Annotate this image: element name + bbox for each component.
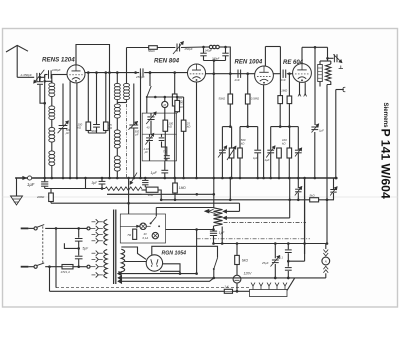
scan fold line xyxy=(3,196,398,198)
choke bottom tap xyxy=(221,227,224,245)
svg-text:50kΩ: 50kΩ xyxy=(148,49,156,53)
wire x134 vertical xyxy=(133,84,136,180)
resistor R11 xyxy=(277,148,282,179)
wire x63 vertical xyxy=(62,84,65,180)
wire C4 to y188 line xyxy=(44,187,46,189)
wire C8 to bandfilter xyxy=(181,46,204,49)
label 4V 0.1A xyxy=(143,232,149,240)
svg-text:7,6: 7,6 xyxy=(163,149,168,153)
wire R7 bottom xyxy=(279,104,281,127)
svg-text:100pF: 100pF xyxy=(52,68,61,72)
oscillator box xyxy=(142,113,176,161)
wire R14 bottom xyxy=(164,131,166,161)
wire secondary bottom drop xyxy=(326,82,331,245)
switch S4 xyxy=(213,258,218,270)
speaker chevrons top xyxy=(323,250,328,257)
wire S4 down xyxy=(213,269,215,278)
svg-text:REN 804: REN 804 xyxy=(154,58,180,65)
resistor R1 100kOhm xyxy=(78,122,91,131)
svg-text:250pF: 250pF xyxy=(135,75,145,79)
wire x288 to x304 link xyxy=(288,260,304,262)
mains lead lower xyxy=(21,266,34,268)
capacitor C6 5000pF xyxy=(91,125,100,133)
wire x49.5 drop xyxy=(49,267,51,292)
capacitor C28 xyxy=(75,239,83,256)
wire R1 bottom xyxy=(87,131,89,134)
wire R8 xyxy=(288,74,290,127)
terminal circle on bus xyxy=(23,176,32,180)
capacitor C5 500pF variable xyxy=(58,121,71,135)
wire y229.5 heater link xyxy=(166,228,215,231)
wire x314.8 vertical xyxy=(314,47,317,179)
wire y287.7 dashed xyxy=(56,287,250,289)
wire L2 column xyxy=(116,73,119,180)
wire cap center tap xyxy=(64,243,80,250)
svg-text:0,1A: 0,1A xyxy=(143,236,149,240)
capacitor C14 1uF xyxy=(265,146,276,180)
svg-text:2nF: 2nF xyxy=(280,78,286,82)
transformer core xyxy=(114,210,116,285)
capacitor C30 1uF xyxy=(151,170,169,179)
wire x239.5 corner xyxy=(239,203,241,211)
output transformer secondary xyxy=(326,64,331,82)
wire x105 drop xyxy=(105,71,108,122)
wire osc top y47.5 xyxy=(127,47,149,49)
svg-text:pF: pF xyxy=(134,132,138,136)
wire mains lower left xyxy=(45,265,62,268)
wire R3 to C8 xyxy=(157,47,175,49)
wire primary bottom stub xyxy=(319,82,321,87)
svg-text:5kΩ: 5kΩ xyxy=(310,194,316,198)
resistor R4 0.5MOhm grid leak xyxy=(172,94,183,106)
capacitor C4 1uF xyxy=(27,182,48,187)
wire C1 to junction xyxy=(40,75,44,78)
wire F2 to bar xyxy=(233,290,250,293)
wire V1 leg x77 xyxy=(76,83,79,180)
choke L4 tapped xyxy=(214,208,223,226)
resistor R15 7.5kOhm xyxy=(175,97,184,113)
mains lead upper xyxy=(21,227,34,229)
label 120V xyxy=(244,272,253,276)
wire y188.5 xyxy=(45,187,105,190)
selector pins xyxy=(251,283,287,290)
mechanical link vertical x126.6 xyxy=(126,104,128,178)
svg-text:RE 604: RE 604 xyxy=(283,60,304,66)
wire y207.5 xyxy=(156,207,214,209)
capacitor C33 antenna shunt xyxy=(37,76,46,104)
wire x45 vertical xyxy=(43,75,46,182)
svg-text:1µF: 1µF xyxy=(265,158,270,162)
label 240pF xyxy=(211,57,220,61)
svg-text:1MΩ: 1MΩ xyxy=(179,186,186,190)
capacitor C8 250pF variable xyxy=(173,42,193,55)
wire R6 xyxy=(247,74,249,127)
capacitor C23 3uF xyxy=(92,177,106,189)
resistor R10 xyxy=(238,148,243,179)
capacitor C19 40pF variable xyxy=(146,112,156,134)
switch S3 in box xyxy=(150,217,160,227)
bandfilter bottom link xyxy=(204,59,226,62)
choke tap arrow y217.9 xyxy=(223,216,290,219)
svg-text:120V: 120V xyxy=(244,272,253,276)
wire C3 to V2 xyxy=(144,71,187,74)
choke left arrow xyxy=(205,209,216,213)
svg-text:0,1: 0,1 xyxy=(279,255,283,259)
resistor R22 7Ohm xyxy=(127,229,137,239)
svg-text:140pF: 140pF xyxy=(205,49,213,53)
wire pot to R18b xyxy=(142,189,147,191)
wire anode line y73.7 xyxy=(206,72,255,75)
wire V4 top xyxy=(301,47,303,63)
mains voltage taps xyxy=(87,219,103,277)
potentiometer P1 xyxy=(105,173,142,195)
wire C2 to V1 grid xyxy=(45,74,68,76)
wire x196.6 drop xyxy=(195,230,198,275)
wire V3 cathode xyxy=(262,85,265,180)
barretter lamp xyxy=(233,265,241,293)
output transformer primary xyxy=(318,65,323,82)
svg-text:P 141 W/604: P 141 W/604 xyxy=(379,129,393,199)
wire switch to box xyxy=(146,97,148,113)
wire x96.5 drop xyxy=(95,71,98,124)
speaker circle xyxy=(322,257,330,265)
wire y194.3 xyxy=(107,193,214,196)
capacitor C21 xyxy=(159,134,165,140)
svg-text:Siemens: Siemens xyxy=(382,103,389,129)
wire anode to C17 xyxy=(328,57,334,59)
wire V1 anode top loop xyxy=(76,45,111,180)
svg-text:1,4: 1,4 xyxy=(224,285,229,289)
wire V5 anode xyxy=(152,246,218,257)
wire lampbox right xyxy=(166,229,197,231)
capacitor C2 100pF xyxy=(49,68,61,79)
wire R4 bottom xyxy=(173,106,176,179)
capacitor C32 2nF xyxy=(280,70,286,82)
resistor R12 xyxy=(287,148,292,179)
wire transformer top link xyxy=(320,58,331,64)
capacitor C18 xyxy=(330,178,337,200)
svg-text:pF: pF xyxy=(65,131,70,135)
tube V3 REN 1004 xyxy=(235,60,274,85)
bracket group3 y126.6 xyxy=(271,125,291,128)
wire y277.9 xyxy=(118,276,326,281)
wire speaker top xyxy=(325,244,327,250)
svg-text:1kΩ: 1kΩ xyxy=(148,193,154,197)
mechanical link dashed y238.8 xyxy=(197,238,310,240)
wire x289.7 corner xyxy=(288,178,291,218)
wire y97 line xyxy=(147,96,184,99)
wire x230.3 low xyxy=(229,177,232,201)
transformer primary winding xyxy=(104,220,107,279)
wire S3 top xyxy=(155,208,157,217)
wire y281.3 xyxy=(118,278,214,284)
capacitor C20 trimmer 2-16pF xyxy=(143,133,154,161)
wire w1 filament xyxy=(121,247,146,259)
wire y273.6 xyxy=(118,271,197,276)
resistor R18 1kOhm xyxy=(146,187,158,197)
capacitor C7 500pF variable xyxy=(128,121,139,136)
capacitor C27 xyxy=(279,244,292,280)
svg-text:RENS 1204: RENS 1204 xyxy=(42,57,75,64)
pilot lamp LP2 xyxy=(152,232,158,238)
wire x230.3 top xyxy=(229,74,231,94)
capacitor C12 xyxy=(218,146,227,180)
wire V2 cathode drop xyxy=(195,82,198,179)
bandfilter left leg xyxy=(200,46,209,61)
wire screen bracket y133 xyxy=(88,131,106,134)
wire R18 out xyxy=(158,190,163,201)
switch S1b xyxy=(34,263,44,268)
wire speaker bottom xyxy=(325,273,327,278)
capacitor C1 2-350pF variable xyxy=(20,70,45,83)
wire x85.5 stub xyxy=(84,177,87,189)
wire x140.5 vertical xyxy=(139,73,142,180)
resistor R2 25kOhm xyxy=(104,122,113,131)
tube V1 RENS 1204 xyxy=(42,57,85,83)
wire R5 bottom xyxy=(229,104,231,127)
svg-text:pF: pF xyxy=(144,150,148,154)
wire V4 legs xyxy=(298,82,307,96)
choke tap arrow y211.4 xyxy=(223,210,240,213)
svg-text:1µF: 1µF xyxy=(27,182,35,187)
selector bar xyxy=(250,290,288,297)
svg-text:RGN 1054: RGN 1054 xyxy=(162,251,187,257)
tube V5 RGN 1054 xyxy=(146,255,162,271)
svg-text:1µF: 1µF xyxy=(319,129,324,133)
coil L2 oscillator sections xyxy=(114,83,120,171)
wire grid line y72.6 xyxy=(85,71,140,74)
wire box inner y134.2 xyxy=(142,133,176,135)
wire w2 filament xyxy=(125,261,146,263)
wire V1 leg x70 xyxy=(69,81,72,179)
wire C21 down xyxy=(162,142,167,156)
svg-text:1µF: 1µF xyxy=(151,171,158,175)
title P 141 W/604 xyxy=(379,129,393,199)
svg-text:1µF: 1µF xyxy=(253,156,258,160)
svg-text:1MΩ: 1MΩ xyxy=(281,88,288,92)
label RGN 1054 xyxy=(162,251,187,257)
resistor R6 0.5MOhm xyxy=(245,94,260,104)
wire C32 to V4 xyxy=(287,73,293,75)
wire switch link dashed xyxy=(42,226,44,264)
wire R4 top xyxy=(174,73,176,94)
wire x88.3 drop xyxy=(87,71,90,122)
capacitor C26 variable 25pF xyxy=(261,244,280,280)
wire L1 top hook xyxy=(43,80,51,83)
wire antenna lead xyxy=(17,76,34,78)
wire R16 chain xyxy=(182,97,185,179)
wire filament loop xyxy=(160,264,181,275)
wire y199.8 xyxy=(161,199,334,202)
wire x214 B+ vertical xyxy=(213,61,216,208)
lamp box wires xyxy=(120,225,150,228)
wire x128.6 xyxy=(127,177,130,214)
wire R17 to y203.2 xyxy=(50,202,52,204)
wire y203.2 xyxy=(51,202,240,204)
fuse F1 xyxy=(61,265,74,275)
tube V4 RE 604 xyxy=(283,60,311,82)
capacitor C31 below bus xyxy=(295,178,302,200)
wire y243.5 xyxy=(214,242,326,245)
bracket group2 y126.6 xyxy=(240,125,258,128)
pilot lamp LP1 xyxy=(140,223,146,229)
fuse F2 1.4A xyxy=(224,285,232,294)
capacitor C3 250pF xyxy=(135,68,145,78)
resistor R5 50kOhm xyxy=(219,94,233,104)
svg-text:200Ω: 200Ω xyxy=(36,195,45,199)
wire mains lower right xyxy=(73,265,87,268)
capacitor C25 1uF xyxy=(210,231,226,245)
wire C6 bottom xyxy=(96,127,98,133)
switch S2 blade xyxy=(146,86,151,98)
bus wire y178 xyxy=(15,177,338,180)
wire x327.7 drop xyxy=(326,47,329,59)
pilot lamp box xyxy=(120,214,165,243)
resistor R17 200Ohm xyxy=(36,189,53,202)
resistor R16 25kOhm xyxy=(181,120,191,131)
svg-text:25µF: 25µF xyxy=(261,261,269,265)
label 500k xyxy=(241,138,246,145)
wire g2 legs xyxy=(240,127,258,148)
coil L3 coupling xyxy=(124,83,130,99)
wire L1 column xyxy=(51,74,54,179)
switch S1a xyxy=(34,225,44,230)
capacitor C13 1uF xyxy=(253,148,261,179)
wire L3 top feed xyxy=(126,48,128,84)
wire g1 legs xyxy=(222,127,231,148)
wire top link y45.9 xyxy=(265,46,280,48)
resistor R21 6kOhm xyxy=(235,244,249,265)
wire box to C30 xyxy=(164,161,166,170)
wire bandfilter out xyxy=(226,47,231,74)
wire hook x335.8 xyxy=(335,87,346,179)
wire choke bottom xyxy=(213,226,215,231)
resistor R3 50kOhm xyxy=(148,46,157,54)
svg-text:6kΩ: 6kΩ xyxy=(242,258,249,262)
wire x56 drop xyxy=(55,228,57,287)
capacitor C24 xyxy=(142,177,148,188)
capacitor C17 tone xyxy=(333,54,343,68)
wire V3 top cap xyxy=(264,47,266,67)
capacitor C22 xyxy=(164,156,170,161)
capacitor C11 2nF xyxy=(234,70,241,82)
transformer secondary winding xyxy=(121,249,124,272)
svg-text:REN 1004: REN 1004 xyxy=(235,60,263,66)
resistor R7 1MOhm xyxy=(278,88,288,103)
resistor R19 1MOhm xyxy=(173,177,187,201)
wire y291.3 xyxy=(50,290,225,292)
tube V2 REN 804 xyxy=(154,58,206,83)
wire secondary bottom stub xyxy=(118,271,120,274)
capacitor C16 trimmer xyxy=(311,124,324,133)
capacitor C29 xyxy=(75,256,83,267)
wire mains upper xyxy=(45,227,87,230)
label 7.6 xyxy=(163,149,168,153)
mechanical link dashed y222.5 xyxy=(224,222,307,224)
wire V3 to V4 grid xyxy=(273,72,290,75)
bracket group1 y126.6 xyxy=(222,125,231,128)
bandfilter right leg xyxy=(219,46,228,61)
title Siemens xyxy=(382,103,389,129)
resistor R14 100kOhm xyxy=(163,120,174,131)
svg-text:0,5MΩ: 0,5MΩ xyxy=(251,97,260,101)
wire x150 drop xyxy=(149,71,152,86)
coil L1 antenna sections xyxy=(49,83,55,166)
wire x280.7 drop xyxy=(279,47,281,96)
bandfilter coil xyxy=(209,45,219,48)
resistor R9 variable xyxy=(227,146,236,179)
svg-text:2nF: 2nF xyxy=(234,78,240,82)
label 140pF xyxy=(205,49,213,53)
wire bar to speaker line xyxy=(287,278,295,290)
label 100k xyxy=(282,138,287,145)
svg-text:50kΩ: 50kΩ xyxy=(219,97,227,101)
speaker chevrons bottom xyxy=(323,266,328,273)
resistor R13 M circle xyxy=(162,97,168,120)
label 5uF xyxy=(83,247,90,251)
resistor R8 1MOhm xyxy=(287,96,292,104)
wire x78.7 upper xyxy=(78,228,80,237)
ground symbol xyxy=(11,178,23,205)
wire L3 bottom xyxy=(117,100,126,103)
wire top y47 xyxy=(302,46,328,49)
wire x304.6 xyxy=(303,177,306,262)
svg-text:2-350pF: 2-350pF xyxy=(20,73,32,77)
antenna xyxy=(6,45,28,77)
resistor R20 5kOhm xyxy=(310,194,319,202)
capacitor C15 xyxy=(290,127,302,180)
wire g3 legs xyxy=(271,127,290,148)
svg-text:1/5/1,4: 1/5/1,4 xyxy=(61,270,71,274)
